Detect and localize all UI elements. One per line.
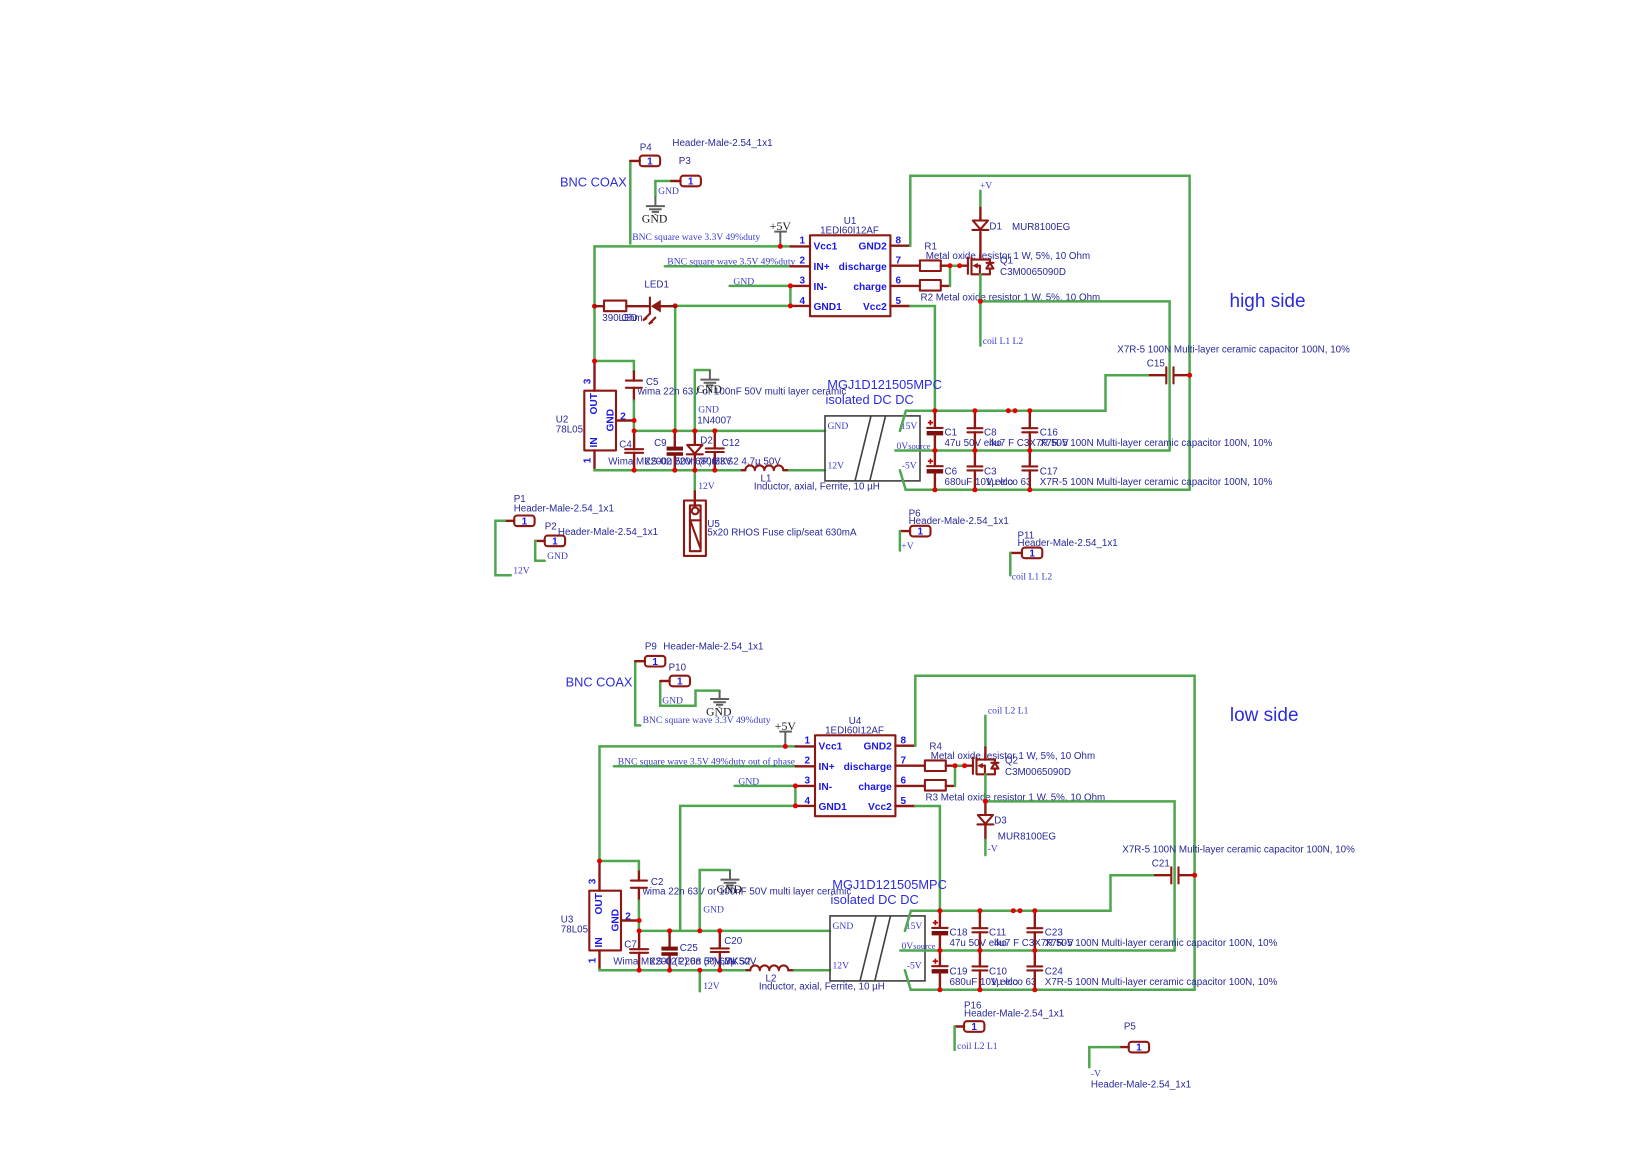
header P10 wire to ground — [660, 681, 719, 706]
svg-text:BNC square wave 3.5V 49%duty o: BNC square wave 3.5V 49%duty out of phas… — [618, 756, 795, 767]
svg-text:GND: GND — [717, 882, 743, 896]
junction 0V rail C8 — [972, 448, 977, 453]
resistor R3 — [925, 780, 946, 791]
svg-text:3: 3 — [805, 776, 811, 787]
junction C15 / GND2 loop — [1187, 373, 1192, 378]
junction MOSFET source node — [978, 299, 983, 304]
svg-text:GND: GND — [738, 776, 759, 787]
svg-text:Q2: Q2 — [1005, 756, 1018, 767]
inductor L1 — [742, 465, 788, 470]
junction regulator GND / C — [637, 918, 642, 923]
junction -5V rail C17 — [1032, 987, 1037, 992]
wire +15V rail — [900, 411, 906, 431]
junction gate node b — [962, 763, 967, 768]
junction C15 / GND2 loop — [1192, 873, 1197, 878]
capacitor C6 electrolytic — [927, 451, 944, 490]
junction GND rail / C4 — [637, 928, 642, 933]
wire -5V rail — [905, 970, 911, 990]
junction -5V rail C3 — [972, 487, 977, 492]
svg-text:1: 1 — [971, 1022, 977, 1033]
wire 12V stub — [694, 470, 697, 491]
junction +5V at LED resistor — [592, 304, 597, 309]
svg-text:C6: C6 — [945, 467, 958, 478]
junction 0V rail C8 — [977, 948, 982, 953]
svg-text:Header-Male-2.54_1x1: Header-Male-2.54_1x1 — [663, 642, 763, 653]
svg-text:X7R-5 100N Multi-layer ceramic: X7R-5 100N Multi-layer ceramic capacitor… — [1122, 845, 1355, 856]
svg-text:GND: GND — [703, 905, 724, 916]
svg-text:P10: P10 — [669, 663, 687, 674]
svg-text:2: 2 — [800, 256, 806, 267]
svg-text:D3: D3 — [994, 816, 1007, 827]
junction -5V rail C17 — [1027, 487, 1032, 492]
svg-text:6: 6 — [901, 776, 907, 787]
svg-text:GND: GND — [696, 382, 722, 396]
wire to chassis ground symbol — [700, 870, 730, 931]
junction GND rail / D2 column — [697, 928, 702, 933]
wire D3 to -V — [984, 840, 987, 855]
capacitor C21 — [1155, 867, 1195, 883]
capacitor C10 — [972, 951, 987, 990]
svg-text:+V: +V — [980, 181, 992, 192]
junction gate node a — [953, 763, 958, 768]
junction +15V rail stub b — [1018, 908, 1023, 913]
junction 12V rail / C9 — [672, 468, 677, 473]
junction GND rail / D2 column — [692, 428, 697, 433]
svg-text:1: 1 — [522, 516, 528, 527]
wire coil stub to drain — [984, 716, 987, 748]
svg-text:X7R-5 100N Multi-layer ceramic: X7R-5 100N Multi-layer ceramic capacitor… — [1117, 345, 1350, 356]
resistor R2 — [920, 280, 941, 291]
svg-text:MUR8100EG: MUR8100EG — [998, 831, 1056, 842]
junction +15V rail stub a — [1006, 408, 1011, 413]
junction 12V rail / 12V stub — [692, 468, 697, 473]
svg-text:LED: LED — [619, 313, 638, 324]
junction 0V rail C16 — [1032, 948, 1037, 953]
capacitor C18 electrolytic — [932, 911, 949, 951]
junction +15V rail C1 — [937, 908, 942, 913]
header P2 pin 1 — [536, 536, 565, 548]
svg-text:coil L1 L2: coil L1 L2 — [1012, 571, 1053, 582]
svg-text:BNC COAX: BNC COAX — [560, 175, 627, 190]
svg-text:GND: GND — [658, 186, 679, 197]
svg-text:MGJ1D121505MPC: MGJ1D121505MPC — [832, 877, 947, 892]
svg-text:coil L1 L2: coil L1 L2 — [983, 336, 1024, 347]
svg-text:Q1: Q1 — [1000, 256, 1013, 267]
wire R charge up to gate node — [941, 285, 950, 287]
wire R to gate node — [941, 265, 950, 267]
wire LED to U1 GND1 — [675, 305, 790, 308]
wire coil stub — [979, 301, 982, 345]
svg-text:BNC square wave 3.3V 49%duty: BNC square wave 3.3V 49%duty — [632, 232, 760, 243]
svg-text:1: 1 — [1136, 1043, 1142, 1054]
svg-text:C24: C24 — [1045, 967, 1064, 978]
svg-text:IN-: IN- — [814, 282, 828, 293]
wire 12V stub — [699, 970, 702, 991]
svg-text:1µ elco 63: 1µ elco 63 — [991, 977, 1037, 988]
capacitor C19 electrolytic — [932, 951, 949, 990]
DC-DC converter low MGJ1D121505MPC — [830, 916, 936, 981]
junction 0V rail C1 — [937, 948, 942, 953]
junction 12V rail / C9 — [667, 968, 672, 973]
svg-text:Vcc2: Vcc2 — [863, 302, 887, 313]
svg-text:C9: C9 — [654, 438, 667, 449]
capacitor C4 — [625, 431, 643, 470]
svg-text:12V: 12V — [703, 981, 720, 992]
svg-text:C15: C15 — [1147, 359, 1166, 370]
svg-text:8: 8 — [896, 235, 902, 246]
capacitor C25 — [661, 931, 677, 970]
junction IN- — [788, 283, 793, 288]
svg-text:6: 6 — [896, 276, 902, 287]
wire 12V rail — [595, 469, 746, 472]
header P1 pin 1 — [505, 516, 535, 528]
wire source node to D3 — [984, 774, 987, 801]
header P9 pin 1 — [635, 656, 665, 668]
svg-text:3: 3 — [587, 878, 598, 884]
junction gate node b — [957, 263, 962, 268]
header P6 pin 1 — [900, 526, 931, 538]
junction +15V rail C8 — [972, 408, 977, 413]
svg-text:-V: -V — [1091, 1068, 1101, 1079]
wire +V to D1 anode — [979, 191, 982, 206]
wire -5V rail — [900, 470, 906, 490]
junction IN- — [793, 783, 798, 788]
header P11 pin 1 — [1010, 548, 1042, 560]
capacitor C8 — [967, 411, 982, 451]
svg-text:C7: C7 — [624, 940, 637, 951]
resistor R1 — [920, 260, 941, 271]
resistor R4 — [925, 760, 946, 771]
svg-text:+5V: +5V — [770, 219, 792, 233]
svg-text:wima 22n 63V or 100nF 50V mult: wima 22n 63V or 100nF 50V multi layer ce… — [637, 386, 847, 397]
svg-text:Header-Male-2.54_1x1: Header-Male-2.54_1x1 — [672, 138, 772, 149]
svg-text:+V: +V — [901, 541, 913, 552]
junction 12V rail / C12 — [712, 468, 717, 473]
junction gate node a — [948, 263, 953, 268]
gate driver U1 1EDI60I12AF — [790, 235, 920, 316]
svg-text:1: 1 — [805, 735, 811, 746]
svg-text:-5V: -5V — [902, 461, 917, 472]
svg-text:C4: C4 — [619, 440, 632, 451]
junction +5V / Vcc1 — [783, 744, 788, 749]
junction GND rail / C12 — [717, 928, 722, 933]
svg-text:D2: D2 — [700, 435, 713, 446]
junction -5V rail C6 — [937, 987, 942, 992]
svg-text:8: 8 — [901, 735, 907, 746]
ground symbol GND — [700, 380, 719, 389]
junction GND rail / C4 — [632, 428, 637, 433]
LED LED1 — [626, 298, 675, 325]
capacitor C9 — [667, 431, 683, 470]
wire Vcc2 to +15V rail — [910, 306, 935, 411]
svg-text:D1: D1 — [989, 221, 1002, 232]
wire 12V rail — [600, 969, 751, 972]
svg-text:78L05: 78L05 — [556, 424, 584, 435]
MOSFET Q2 C3M0065090D — [965, 765, 973, 767]
capacitor C17 — [1022, 451, 1037, 490]
ground symbol at P10 — [710, 699, 729, 708]
capacitor C7 — [630, 931, 648, 970]
capacitor C2 — [631, 872, 647, 901]
svg-text:1: 1 — [918, 527, 924, 538]
svg-text:4: 4 — [800, 296, 806, 307]
svg-text:charge: charge — [853, 282, 887, 293]
svg-text:C3M0065090D: C3M0065090D — [1005, 767, 1071, 778]
inductor L2 — [747, 965, 793, 970]
svg-text:OUT: OUT — [589, 392, 600, 414]
svg-text:GND1: GND1 — [819, 802, 848, 813]
svg-text:1: 1 — [652, 657, 658, 668]
capacitor C16 — [1022, 411, 1037, 451]
wire R to gate node — [946, 765, 955, 767]
svg-text:P9: P9 — [645, 642, 657, 653]
svg-text:4,7µ 50V: 4,7µ 50V — [717, 956, 757, 967]
junction +5V / Vcc1 — [778, 244, 783, 249]
junction 12V rail / C4 — [637, 968, 642, 973]
svg-text:P2: P2 — [545, 522, 557, 533]
svg-text:5: 5 — [901, 796, 907, 807]
junction +15V rail stub b — [1013, 408, 1018, 413]
wire GND rail — [634, 430, 825, 433]
svg-text:IN-: IN- — [819, 782, 833, 793]
svg-text:C25: C25 — [680, 943, 699, 954]
wire GND2 loop (top rail to -5V rail) — [915, 676, 1194, 990]
wire 0Vsource rail — [900, 949, 1174, 952]
DC-DC converter high MGJ1D121505MPC — [825, 416, 931, 481]
svg-text:78L05: 78L05 — [561, 924, 589, 935]
svg-text:1µ elco 63: 1µ elco 63 — [986, 477, 1032, 488]
capacitor C20 — [711, 931, 729, 970]
svg-text:isolated DC DC: isolated DC DC — [831, 892, 919, 907]
header P9 wire — [635, 661, 640, 725]
svg-text:1: 1 — [677, 677, 683, 688]
wire source node to 0V rail — [980, 301, 1169, 450]
svg-text:1EDI60I12AF: 1EDI60I12AF — [825, 726, 884, 737]
wire BNC 3.5V to U4 IN+ — [614, 765, 796, 768]
svg-text:wima 22n 63V or 100nF 50V mult: wima 22n 63V or 100nF 50V multi layer ce… — [642, 886, 852, 897]
wire P2 to GND label — [535, 541, 545, 561]
junction 0V rail C16 — [1027, 448, 1032, 453]
svg-text:3: 3 — [800, 276, 806, 287]
svg-text:P4: P4 — [640, 143, 653, 154]
wire R charge up to gate node — [946, 785, 955, 787]
diode D2 1N4007 — [687, 431, 703, 470]
header P4 pin 1 — [630, 156, 660, 168]
svg-text:IN: IN — [594, 937, 605, 947]
svg-text:OUT: OUT — [594, 892, 605, 914]
svg-text:isolated DC DC: isolated DC DC — [826, 392, 914, 407]
svg-text:Header-Male-2.54_1x1: Header-Male-2.54_1x1 — [514, 504, 614, 515]
svg-text:BNC square wave 3.5V 49%duty: BNC square wave 3.5V 49%duty — [667, 256, 795, 267]
svg-text:C17: C17 — [1040, 467, 1058, 478]
wire drain to D1 — [979, 232, 981, 260]
wire to chassis ground symbol — [695, 370, 710, 431]
junction +15V rail C8 — [977, 908, 982, 913]
svg-text:GND: GND — [706, 705, 732, 719]
svg-text:C21: C21 — [1152, 859, 1170, 870]
junction regulator OUT — [597, 859, 602, 864]
capacitor C5 — [626, 372, 642, 401]
svg-text:Header-Male-2.54_1x1: Header-Male-2.54_1x1 — [964, 1009, 1064, 1020]
svg-text:+5V: +5V — [775, 719, 797, 733]
wire 0Vsource rail — [895, 449, 1169, 452]
svg-text:C10: C10 — [989, 967, 1008, 978]
svg-text:C1: C1 — [945, 428, 958, 439]
header P16 pin 1 — [955, 1021, 985, 1033]
svg-text:C8: C8 — [984, 428, 997, 439]
wire +5V rail to Vcc1 — [595, 245, 791, 248]
capacitor C1 electrolytic — [927, 411, 944, 451]
header P10 pin 1 — [661, 676, 690, 688]
svg-text:GND: GND — [547, 551, 568, 562]
junction -5V rail C3 — [977, 987, 982, 992]
svg-text:low side: low side — [1230, 705, 1299, 726]
svg-text:7: 7 — [901, 756, 907, 767]
svg-text:Header-Male-2.54_1x1: Header-Male-2.54_1x1 — [1018, 538, 1118, 549]
svg-text:GND: GND — [833, 921, 854, 932]
svg-text:C23: C23 — [1045, 928, 1064, 939]
junction +15V rail C1 — [932, 408, 937, 413]
wire IN- to GND1 — [794, 786, 797, 806]
svg-text:coil L2 L1: coil L2 L1 — [988, 706, 1029, 717]
svg-text:Vcc1: Vcc1 — [819, 742, 843, 753]
wire C5 to regulator GND pin — [633, 401, 636, 431]
svg-text:12V: 12V — [513, 566, 530, 577]
svg-text:-V: -V — [988, 843, 998, 854]
junction GND1 — [793, 803, 798, 808]
header P3 wire to ground — [655, 181, 671, 196]
wire P16 to coil label — [953, 1027, 956, 1050]
svg-text:P3: P3 — [679, 156, 692, 167]
wire GND1 of U4 down to GND rail — [680, 806, 795, 931]
svg-text:C19: C19 — [950, 967, 968, 978]
junction 0V rail C1 — [932, 448, 937, 453]
junction -5V rail C6 — [932, 487, 937, 492]
junction 12V rail / 12V stub — [697, 968, 702, 973]
svg-text:C16: C16 — [1040, 428, 1059, 439]
MOSFET Q1 C3M0065090D — [960, 265, 968, 267]
wire P6 to +V label — [899, 531, 902, 550]
ground symbol at P3 — [646, 206, 665, 215]
svg-text:1N4007: 1N4007 — [697, 415, 731, 426]
fuse U5 — [684, 491, 706, 556]
svg-text:Header-Male-2.54_1x1: Header-Male-2.54_1x1 — [1091, 1079, 1191, 1090]
wire IN- to GND1 — [789, 286, 792, 306]
svg-text:Vcc1: Vcc1 — [814, 242, 838, 253]
svg-text:IN+: IN+ — [814, 262, 830, 273]
capacitor C23 — [1027, 911, 1042, 951]
svg-text:C12: C12 — [722, 438, 740, 449]
svg-text:BNC COAX: BNC COAX — [566, 675, 633, 690]
svg-text:Vcc2: Vcc2 — [868, 802, 892, 813]
wire +5V to capacitor C5 — [595, 361, 634, 372]
wire P5 to -V label — [1089, 1047, 1119, 1067]
wire source node to 0V rail — [985, 801, 1174, 950]
svg-text:GND2: GND2 — [858, 242, 887, 253]
capacitor C15 — [1150, 367, 1190, 383]
junction LED node — [673, 303, 678, 308]
svg-text:MUR8100EG: MUR8100EG — [1012, 222, 1070, 233]
svg-text:Inductor, axial, Ferrite, 10 µ: Inductor, axial, Ferrite, 10 µH — [754, 482, 880, 493]
svg-text:IN+: IN+ — [819, 762, 835, 773]
voltage regulator U3 78L05 — [587, 862, 639, 970]
svg-text:Header-Male-2.54_1x1: Header-Male-2.54_1x1 — [909, 516, 1009, 527]
svg-text:MGJ1D121505MPC: MGJ1D121505MPC — [827, 377, 942, 392]
svg-text:GND1: GND1 — [814, 302, 843, 313]
svg-text:C11: C11 — [989, 928, 1006, 939]
svg-text:7: 7 — [896, 256, 902, 267]
header P4 wire — [629, 161, 632, 244]
wire GND rail — [639, 930, 830, 933]
svg-text:1: 1 — [1029, 549, 1035, 560]
wire source node — [979, 274, 982, 301]
svg-text:X7R-5 100N Multi-layer ceramic: X7R-5 100N Multi-layer ceramic capacitor… — [1040, 438, 1273, 449]
svg-text:12V: 12V — [828, 461, 845, 472]
svg-text:5: 5 — [896, 296, 902, 307]
svg-text:GND: GND — [828, 421, 849, 432]
junction regulator GND / C — [632, 418, 637, 423]
junction +15V rail stub a — [1011, 908, 1016, 913]
ground symbol GND — [721, 880, 740, 889]
wire +5V vertical to regulator — [598, 746, 601, 861]
wire BNC 3.5V to U1 IN+ — [665, 265, 791, 268]
wire +5V vertical to regulator — [593, 246, 596, 361]
svg-text:high side: high side — [1230, 291, 1306, 312]
junction MOSFET source node — [983, 799, 988, 804]
svg-text:1: 1 — [587, 957, 598, 963]
svg-text:IN: IN — [589, 437, 600, 447]
svg-text:1: 1 — [647, 157, 653, 168]
svg-text:C3: C3 — [984, 467, 997, 478]
svg-text:discharge: discharge — [839, 262, 887, 273]
junction GND rail / C9 — [672, 428, 677, 433]
svg-text:discharge: discharge — [844, 762, 892, 773]
svg-text:X7R-5 100N Multi-layer ceramic: X7R-5 100N Multi-layer ceramic capacitor… — [1045, 938, 1278, 949]
wire GND to U1 IN- — [730, 285, 791, 288]
wire GND to U4 IN- — [735, 785, 796, 788]
svg-text:GND: GND — [698, 405, 719, 416]
svg-text:Inductor, axial, Ferrite, 10 µ: Inductor, axial, Ferrite, 10 µH — [759, 982, 885, 993]
svg-text:C18: C18 — [950, 928, 969, 939]
svg-text:-5V: -5V — [907, 961, 922, 972]
svg-text:X7R-5 100N Multi-layer ceramic: X7R-5 100N Multi-layer ceramic capacitor… — [1040, 477, 1273, 488]
junction +15V rail C16 — [1032, 908, 1037, 913]
svg-text:3: 3 — [582, 378, 593, 384]
svg-text:Header-Male-2.54_1x1: Header-Male-2.54_1x1 — [558, 527, 658, 538]
svg-text:4: 4 — [805, 796, 811, 807]
svg-text:2: 2 — [805, 756, 811, 767]
wire Vcc2 to +15V rail — [915, 806, 940, 911]
wire LED cathode down to GND rail — [674, 306, 677, 431]
gate driver U4 1EDI60I12AF — [795, 735, 925, 816]
svg-text:1: 1 — [688, 177, 694, 188]
junction 12V rail / C12 — [717, 968, 722, 973]
diode D1 MUR8100EG — [972, 206, 988, 230]
svg-text:2200u 50V 680u: 2200u 50V 680u — [645, 456, 717, 467]
svg-text:1EDI60I12AF: 1EDI60I12AF — [820, 226, 879, 237]
voltage regulator U2 78L05 — [582, 362, 634, 470]
junction GND1 — [788, 303, 793, 308]
svg-text:coil L2 L1: coil L2 L1 — [957, 1041, 998, 1052]
svg-text:12V: 12V — [698, 481, 715, 492]
junction 12V rail / C4 — [632, 468, 637, 473]
svg-text:1: 1 — [800, 235, 806, 246]
power symbol +5V at U4 pin 1 — [775, 719, 797, 744]
wire P1 to 12V label — [495, 521, 510, 576]
svg-text:C3M0065090D: C3M0065090D — [1000, 267, 1066, 278]
svg-text:GND: GND — [642, 211, 668, 225]
capacitor C3 — [967, 451, 982, 490]
